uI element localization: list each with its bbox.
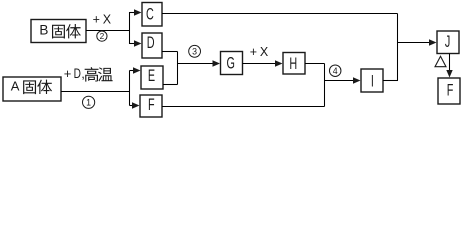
svg-text:+X: +X <box>93 13 114 27</box>
wire A output <box>61 91 130 93</box>
arrow G to H <box>243 60 283 66</box>
box B (B固体) <box>31 20 86 43</box>
wire D output <box>162 51 178 53</box>
wire E output <box>163 84 178 86</box>
label +D,高温 <box>64 66 113 82</box>
svg-text:+: + <box>64 66 72 81</box>
wire H output <box>305 63 325 65</box>
arrow into D <box>130 40 142 46</box>
svg-text:J: J <box>445 32 450 51</box>
box A (A固体) <box>3 77 61 101</box>
wire C output top <box>162 13 398 15</box>
svg-text:I: I <box>371 71 374 90</box>
box C <box>142 3 162 27</box>
arrow into I <box>325 77 361 83</box>
label +X over B arrow <box>93 13 114 27</box>
box E <box>141 66 163 89</box>
text B固体 <box>39 23 80 39</box>
wire B output <box>86 30 130 32</box>
label +X over G-H arrow <box>250 45 271 59</box>
wire I output <box>383 80 398 82</box>
box F2 <box>438 78 460 104</box>
wire right vertical <box>397 14 399 81</box>
arrow into E <box>130 67 141 73</box>
box I <box>361 69 383 92</box>
svg-text:2: 2 <box>100 31 105 41</box>
circled 4 <box>329 65 341 77</box>
svg-text:D: D <box>74 66 82 82</box>
svg-text:3: 3 <box>192 46 197 56</box>
box F <box>140 95 162 117</box>
arrow into J <box>398 39 437 45</box>
wire F output bottom <box>162 106 325 108</box>
wire branch vertical E/F <box>129 71 131 106</box>
svg-text:B: B <box>39 23 48 38</box>
circled 1 <box>83 96 95 108</box>
svg-text:C: C <box>146 4 154 23</box>
svg-text:F: F <box>148 95 155 114</box>
svg-text:H: H <box>289 53 297 72</box>
arrow into F <box>130 102 140 108</box>
arrow J to F2 <box>446 54 452 78</box>
box D <box>142 33 162 58</box>
circled 2 <box>97 31 107 41</box>
arrow into C <box>130 9 142 15</box>
svg-text:E: E <box>148 66 155 85</box>
box H <box>283 53 305 75</box>
arrow into G <box>178 60 221 66</box>
heat triangle <box>435 56 446 66</box>
svg-text:D: D <box>147 33 155 52</box>
box G <box>221 52 243 75</box>
svg-text:G: G <box>226 53 234 72</box>
circled 3 <box>189 45 201 57</box>
svg-text:4: 4 <box>333 66 338 76</box>
svg-text:,: , <box>81 66 85 81</box>
svg-text:F: F <box>447 80 454 99</box>
wire branch vertical C/D <box>129 12 131 44</box>
svg-text:1: 1 <box>86 97 91 107</box>
wire vertical H/F junction <box>324 64 326 107</box>
wire junction vertical D/E <box>177 52 179 85</box>
svg-text:A: A <box>11 79 20 94</box>
box J <box>437 31 459 54</box>
svg-text:+X: +X <box>250 45 271 59</box>
text A固体 <box>11 79 52 94</box>
